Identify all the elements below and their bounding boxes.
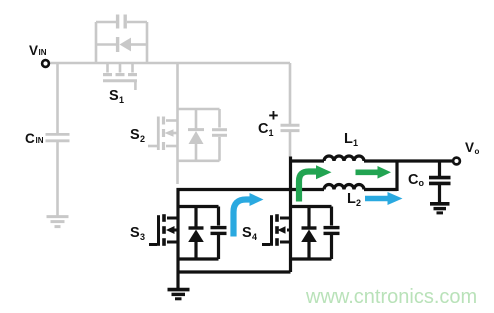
capacitor (parallel with S3) bbox=[211, 207, 227, 260]
label S2 bbox=[130, 127, 145, 144]
inductor L2 bbox=[324, 185, 364, 190]
svg-text:S: S bbox=[130, 225, 140, 241]
svg-text:+: + bbox=[269, 106, 279, 125]
wire: C1 top lead (gray riser from input rail) bbox=[289, 63, 292, 124]
wire: bottom source rail S3-S4 bbox=[178, 270, 291, 273]
wire: CIN down to gray ground bbox=[56, 142, 59, 216]
transistor S4 gate/contact symbol bbox=[262, 214, 291, 246]
label S3 bbox=[130, 225, 145, 242]
svg-text:o: o bbox=[419, 178, 425, 188]
wire: diode row leads bbox=[96, 43, 147, 46]
label S4 bbox=[242, 225, 257, 242]
svg-text:C: C bbox=[408, 172, 419, 188]
arrow (S4 body terminal, points left) bbox=[278, 226, 291, 234]
svg-text:1: 1 bbox=[119, 95, 124, 105]
wire: black riser C1-bottom / L1 / L2 node down to S4 drain bbox=[289, 157, 292, 273]
label Vo bbox=[465, 140, 480, 156]
transistor S4 (black, vertical): top bar of parallel branch bbox=[291, 205, 332, 208]
wire: output lead to Vo bbox=[397, 159, 452, 162]
svg-text:V: V bbox=[465, 140, 474, 155]
inductor L1 bbox=[324, 156, 364, 161]
label C1 with polarity + bbox=[258, 106, 279, 138]
svg-text:C: C bbox=[25, 131, 35, 146]
wire: C1 bottom lead (gray) bbox=[289, 132, 292, 157]
capacitor C1 (gray) bbox=[281, 125, 300, 130]
label Co bbox=[408, 172, 425, 188]
wire: S3 parallel-branch bottom bar bbox=[178, 257, 219, 260]
svg-text:o: o bbox=[475, 147, 480, 156]
svg-text:www.cntronics.com: www.cntronics.com bbox=[305, 286, 477, 308]
label VIN bbox=[29, 43, 47, 58]
svg-text:IN: IN bbox=[39, 48, 47, 57]
wire: S1 snubber loop right riser bbox=[146, 22, 149, 63]
current arrow (cyan, S3 node up toward S4) bbox=[234, 193, 264, 237]
capacitor (parallel with S1) bbox=[118, 15, 126, 29]
wire: ground stub below rail bbox=[176, 272, 179, 289]
svg-text:2: 2 bbox=[356, 198, 361, 208]
label CIN bbox=[25, 131, 44, 146]
wire: S2 parallel-branch top bar bbox=[178, 108, 220, 111]
arrow (S2 body terminal, points left) bbox=[165, 129, 178, 137]
svg-text:2: 2 bbox=[140, 134, 145, 144]
wire: top capacitor row leads bbox=[96, 21, 147, 24]
wire: Vin rail down to CIN bbox=[56, 63, 59, 134]
svg-text:4: 4 bbox=[252, 232, 257, 242]
svg-text:L: L bbox=[344, 131, 353, 147]
ground (output, black) bbox=[430, 204, 450, 213]
label L1 bbox=[344, 131, 358, 148]
capacitor (parallel with S2) bbox=[212, 109, 227, 161]
node Vo terminal bbox=[453, 158, 460, 165]
wire: mid riser / S2 channel (gray) bbox=[176, 63, 179, 184]
svg-text:S: S bbox=[109, 88, 119, 104]
ground (gray, input side) bbox=[47, 217, 69, 227]
wire: S2 parallel-branch bottom bar bbox=[178, 160, 220, 163]
svg-text:1: 1 bbox=[353, 138, 358, 148]
current arrow (green, S4 node up into L1) bbox=[299, 165, 332, 201]
svg-text:L: L bbox=[347, 191, 356, 207]
wire: S1 snubber loop left riser bbox=[95, 22, 98, 63]
capacitor (parallel with S4) bbox=[324, 207, 340, 260]
transistor S1 (gray, horizontal) bbox=[103, 63, 137, 90]
svg-text:S: S bbox=[242, 225, 252, 241]
diode (body diode of S4) bbox=[301, 207, 317, 260]
arrow (S3 body terminal, points left) bbox=[166, 226, 178, 234]
wire: right junction riser joining L1 and L2 rows bbox=[395, 160, 398, 192]
label S1 bbox=[109, 88, 124, 105]
svg-text:C: C bbox=[258, 121, 269, 137]
capacitor CIN bbox=[46, 134, 70, 140]
transistor S3 (black, vertical): channel bbox=[176, 188, 179, 272]
wire: Co top lead bbox=[438, 161, 441, 176]
wire: L1 row right lead bbox=[364, 159, 397, 162]
svg-text:IN: IN bbox=[36, 136, 44, 145]
wire: main top input rail (Vin to C1 top) bbox=[50, 62, 290, 65]
wire: L2 row right lead bbox=[364, 188, 397, 191]
wire: Co bottom lead bbox=[438, 185, 441, 202]
wire: L1 row left lead bbox=[289, 159, 324, 162]
diode (antiparallel with S1, pointing left) bbox=[118, 37, 131, 52]
svg-text:S: S bbox=[130, 127, 140, 143]
wire: S3 drain rail / L2 row left lead bbox=[177, 188, 325, 191]
svg-text:3: 3 bbox=[140, 232, 145, 242]
svg-text:V: V bbox=[29, 43, 38, 58]
wire: S4 parallel-branch bottom bar bbox=[291, 257, 332, 260]
current arrow (cyan, through L2) bbox=[365, 192, 403, 205]
ground (black, power stage) bbox=[168, 290, 190, 299]
label L2 bbox=[347, 191, 361, 208]
diode (body diode of S3) bbox=[188, 207, 204, 260]
wire: S3 parallel-branch top bar bbox=[178, 205, 219, 208]
capacitor Co bbox=[429, 178, 451, 184]
svg-text:1: 1 bbox=[269, 128, 274, 138]
diode (body diode of S2) bbox=[188, 109, 204, 161]
transistor S3 gate/contact symbol bbox=[149, 214, 178, 246]
current arrow (green, through L1) bbox=[356, 166, 392, 179]
node VIN terminal bbox=[42, 60, 49, 67]
transistor S2 (gray, vertical) bbox=[148, 117, 178, 151]
